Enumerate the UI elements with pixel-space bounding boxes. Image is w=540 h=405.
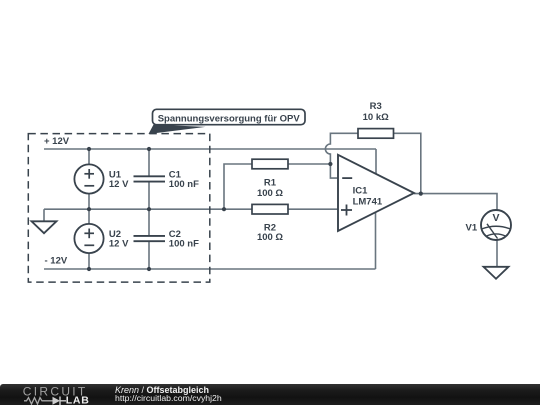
svg-text:Spannungsversorgung für OPV: Spannungsversorgung für OPV: [158, 113, 301, 124]
svg-text:- 12V: - 12V: [45, 255, 68, 266]
svg-text:R3: R3: [370, 101, 382, 112]
svg-text:LM741: LM741: [353, 197, 383, 208]
svg-text:10 kΩ: 10 kΩ: [363, 112, 389, 123]
svg-text:12 V: 12 V: [109, 239, 129, 250]
svg-text:V1: V1: [466, 223, 478, 234]
svg-text:http://circuitlab.com/cvyhj2h: http://circuitlab.com/cvyhj2h: [115, 393, 222, 403]
svg-text:IC1: IC1: [353, 185, 369, 196]
svg-text:LAB: LAB: [66, 395, 90, 405]
svg-text:+ 12V: + 12V: [44, 136, 70, 147]
svg-text:V: V: [492, 212, 499, 224]
svg-text:100 Ω: 100 Ω: [257, 232, 283, 243]
svg-text:100 nF: 100 nF: [169, 179, 199, 190]
svg-text:100 Ω: 100 Ω: [257, 188, 283, 199]
svg-text:R1: R1: [264, 177, 277, 188]
svg-text:100 nF: 100 nF: [169, 239, 199, 250]
svg-text:12 V: 12 V: [109, 179, 129, 190]
